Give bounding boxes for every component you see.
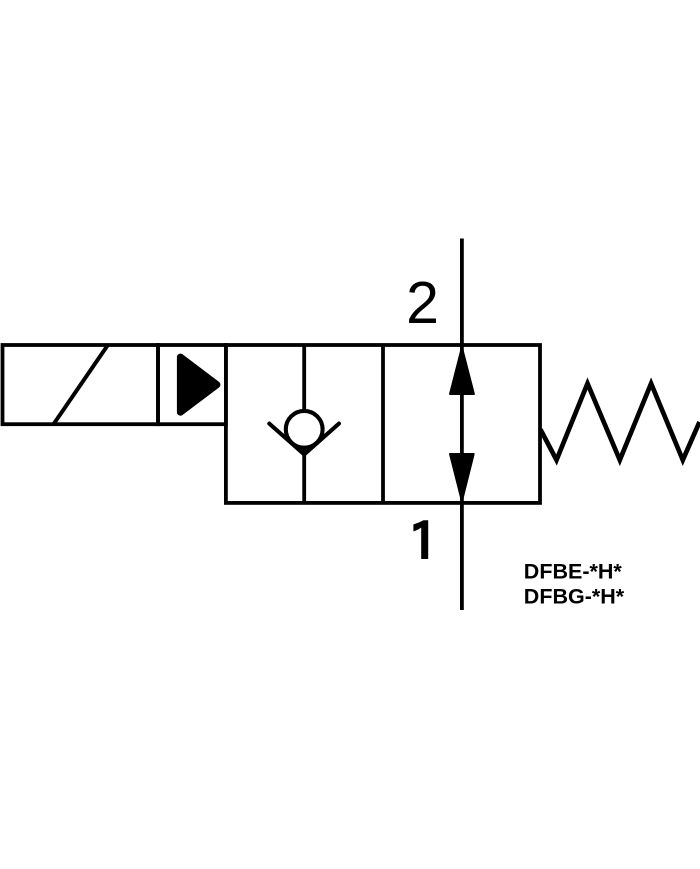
svg-text:2: 2 <box>406 270 439 336</box>
svg-text:DFBG-*H*: DFBG-*H* <box>524 584 625 608</box>
svg-text:DFBE-*H*: DFBE-*H* <box>524 559 623 583</box>
